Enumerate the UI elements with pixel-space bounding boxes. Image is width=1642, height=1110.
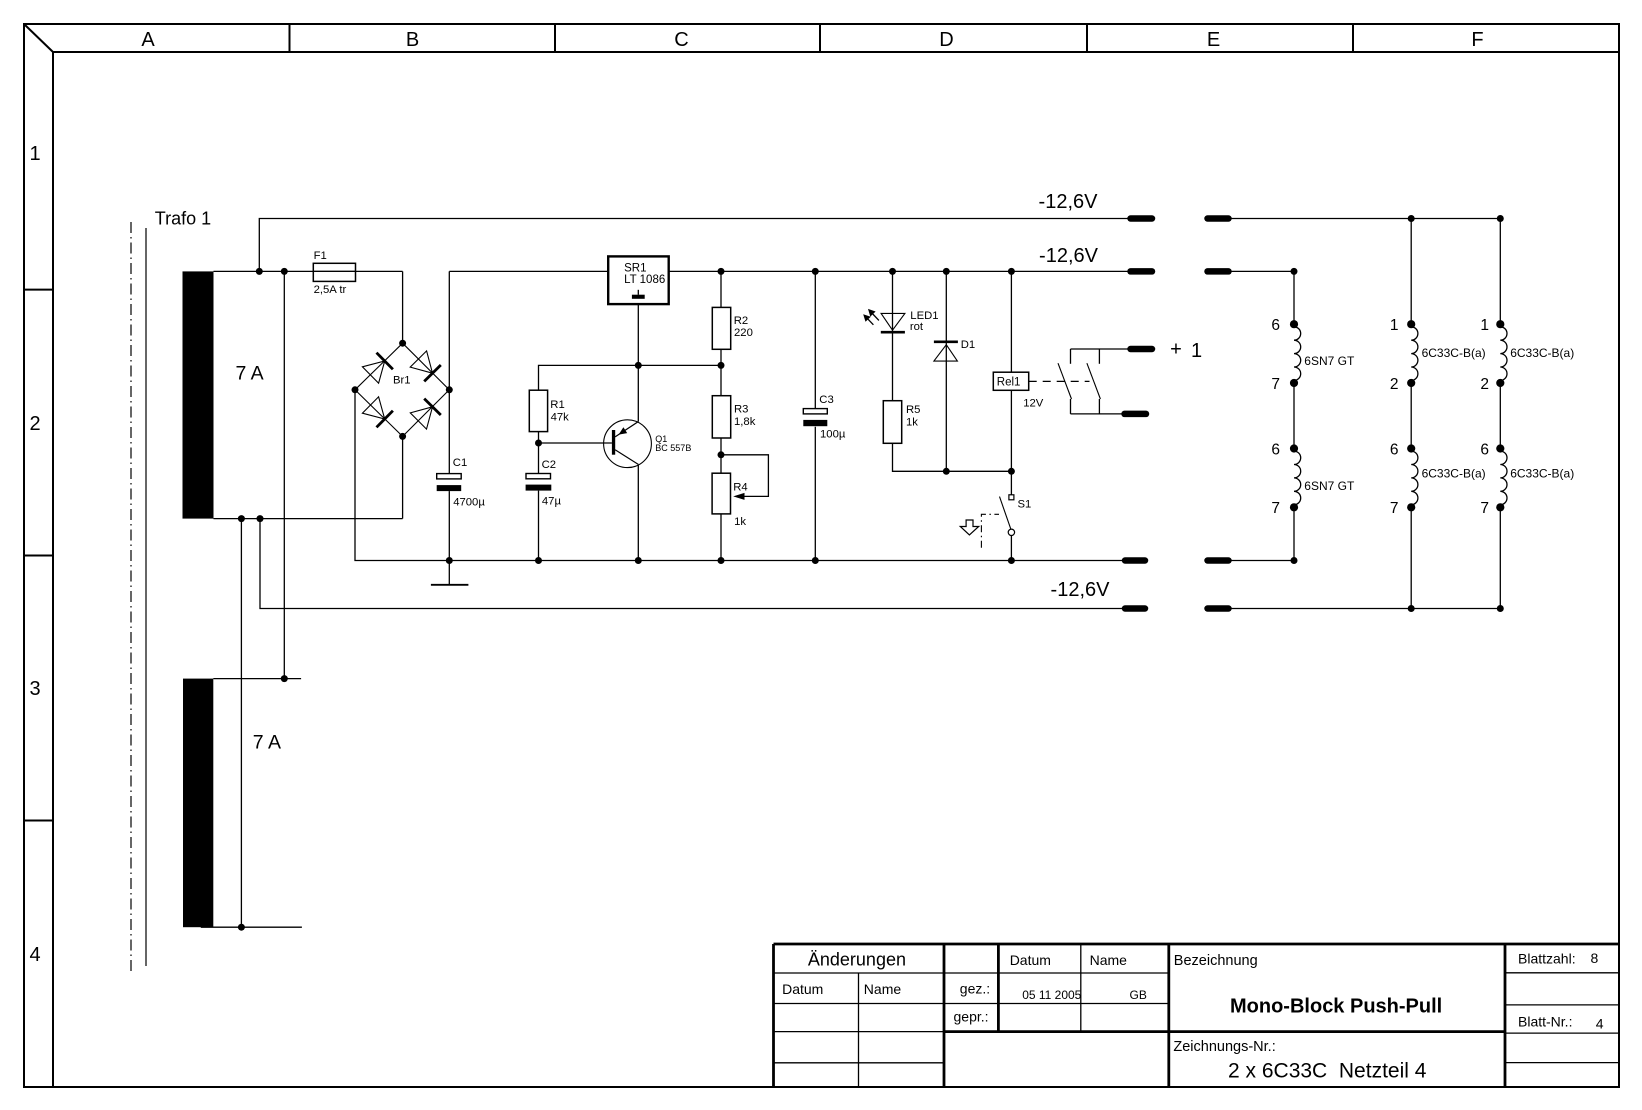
svg-text:Trafo 1: Trafo 1 xyxy=(155,209,211,229)
svg-text:2,5A tr: 2,5A tr xyxy=(314,284,347,296)
svg-text:6: 6 xyxy=(1271,317,1280,334)
svg-text:6SN7 GT: 6SN7 GT xyxy=(1304,479,1355,493)
svg-text:4700µ: 4700µ xyxy=(453,497,485,509)
svg-text:12V: 12V xyxy=(1023,398,1044,410)
svg-text:Name: Name xyxy=(864,981,902,997)
svg-text:6C33C-B(a): 6C33C-B(a) xyxy=(1422,346,1486,360)
svg-text:2: 2 xyxy=(29,413,40,435)
svg-text:gez.:: gez.: xyxy=(960,981,990,997)
svg-text:7: 7 xyxy=(1480,500,1489,517)
svg-text:2: 2 xyxy=(1390,376,1399,393)
svg-text:GB: GB xyxy=(1130,988,1147,1002)
svg-text:Bezeichnung: Bezeichnung xyxy=(1174,953,1258,969)
svg-text:6C33C-B(a): 6C33C-B(a) xyxy=(1422,466,1486,480)
svg-text:6SN7 GT: 6SN7 GT xyxy=(1304,354,1355,368)
svg-text:Mono-Block Push-Pull: Mono-Block Push-Pull xyxy=(1230,996,1442,1018)
svg-text:47µ: 47µ xyxy=(542,496,562,508)
svg-text:7: 7 xyxy=(1390,500,1399,517)
svg-text:C2: C2 xyxy=(542,459,556,471)
svg-text:47k: 47k xyxy=(551,412,570,424)
svg-text:C3: C3 xyxy=(819,394,833,406)
svg-text:7 A: 7 A xyxy=(253,732,281,754)
svg-text:gepr.:: gepr.: xyxy=(954,1008,989,1024)
svg-text:S1: S1 xyxy=(1018,499,1032,511)
svg-text:1k: 1k xyxy=(906,417,918,429)
svg-text:R5: R5 xyxy=(906,404,920,416)
svg-text:Änderungen: Änderungen xyxy=(808,950,906,970)
svg-text:C1: C1 xyxy=(453,457,467,469)
svg-text:Blattzahl:: Blattzahl: xyxy=(1518,951,1576,967)
svg-text:-12,6V: -12,6V xyxy=(1051,579,1111,601)
svg-text:Datum: Datum xyxy=(782,981,823,997)
svg-text:1,8k: 1,8k xyxy=(734,416,756,428)
svg-text:F: F xyxy=(1471,29,1483,51)
svg-text:1: 1 xyxy=(29,143,40,165)
svg-text:-12,6V: -12,6V xyxy=(1039,191,1099,213)
svg-text:7 A: 7 A xyxy=(236,362,264,384)
svg-text:3: 3 xyxy=(29,678,40,700)
svg-text:Br1: Br1 xyxy=(393,375,411,387)
svg-text:4: 4 xyxy=(1596,1016,1604,1032)
svg-text:LED1: LED1 xyxy=(910,310,938,322)
svg-text:+: + xyxy=(1170,339,1182,361)
svg-text:LT 1086: LT 1086 xyxy=(624,274,665,286)
svg-text:R3: R3 xyxy=(734,403,748,415)
svg-text:1: 1 xyxy=(1191,340,1202,362)
svg-text:6C33C-B(a): 6C33C-B(a) xyxy=(1510,346,1574,360)
svg-text:7: 7 xyxy=(1271,376,1280,393)
svg-text:2: 2 xyxy=(1480,376,1489,393)
svg-text:A: A xyxy=(141,29,155,51)
svg-text:6: 6 xyxy=(1480,441,1489,458)
svg-text:rot: rot xyxy=(910,321,924,333)
svg-text:1k: 1k xyxy=(734,516,746,528)
svg-text:6C33C-B(a): 6C33C-B(a) xyxy=(1510,466,1574,480)
svg-text:SR1: SR1 xyxy=(624,262,646,274)
svg-text:F1: F1 xyxy=(314,250,327,262)
svg-text:Name: Name xyxy=(1090,952,1128,968)
svg-text:BC 557B: BC 557B xyxy=(655,443,691,453)
svg-text:Datum: Datum xyxy=(1010,952,1051,968)
svg-text:2 x 6C33C Netzteil 4: 2 x 6C33C Netzteil 4 xyxy=(1228,1060,1427,1083)
svg-text:1: 1 xyxy=(1390,317,1399,334)
svg-text:Rel1: Rel1 xyxy=(997,377,1021,389)
svg-text:4: 4 xyxy=(29,944,40,966)
svg-text:1: 1 xyxy=(1480,317,1489,334)
svg-text:-12,6V: -12,6V xyxy=(1039,245,1099,267)
svg-text:D: D xyxy=(939,29,953,51)
svg-text:E: E xyxy=(1207,29,1220,51)
svg-text:6: 6 xyxy=(1390,441,1399,458)
svg-text:R4: R4 xyxy=(733,482,747,494)
svg-text:8: 8 xyxy=(1591,950,1599,966)
svg-text:7: 7 xyxy=(1271,500,1280,517)
svg-text:Blatt-Nr.:: Blatt-Nr.: xyxy=(1518,1014,1572,1030)
svg-text:R2: R2 xyxy=(734,315,748,327)
svg-text:6: 6 xyxy=(1271,441,1280,458)
svg-text:Zeichnungs-Nr.:: Zeichnungs-Nr.: xyxy=(1173,1039,1275,1055)
svg-text:C: C xyxy=(674,29,688,51)
svg-text:05 11 2005: 05 11 2005 xyxy=(1022,988,1081,1002)
svg-text:D1: D1 xyxy=(961,339,975,351)
svg-text:R1: R1 xyxy=(550,399,564,411)
svg-text:B: B xyxy=(406,29,419,51)
svg-text:220: 220 xyxy=(734,327,753,339)
svg-text:100µ: 100µ xyxy=(820,429,846,441)
